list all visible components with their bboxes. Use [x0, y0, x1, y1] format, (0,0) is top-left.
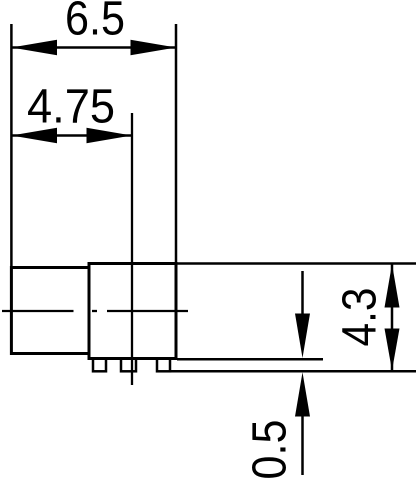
pin 3: [157, 359, 170, 372]
pin 2: [121, 359, 136, 372]
arrowhead 4.75 left: [11, 128, 57, 144]
connector barrel outline: [11, 268, 89, 354]
svg-text:0.5: 0.5: [244, 420, 297, 480]
dimension 0.5 lower arrowhead: [295, 372, 310, 416]
arrowhead 4.3 top: [385, 264, 400, 308]
extension line right (6.5): [175, 24, 178, 263]
arrowhead 6.5 left: [11, 40, 57, 56]
dimension 0.5 upper arrowhead: [295, 314, 310, 359]
arrowhead 4.3 bottom: [385, 329, 400, 371]
extension line body bottom (0.5 top): [177, 358, 323, 361]
seating plane line (0.5 bottom / 4.3 bottom): [170, 370, 416, 373]
svg-text:4.3: 4.3: [334, 288, 387, 347]
extension line left (6.5 / 4.75): [10, 24, 13, 267]
arrowhead 6.5 right: [131, 40, 177, 56]
extension / pin centerline vertical (4.75 right): [131, 113, 133, 385]
horizontal centerline dash 1: [2, 310, 74, 312]
extension line body top (4.3 top): [176, 262, 416, 265]
dimension 0.5 lower arrow shaft: [301, 410, 304, 475]
dimension line 4.75: [11, 134, 132, 137]
svg-text:6.5: 6.5: [65, 0, 125, 46]
horizontal centerline dash 2: [92, 310, 97, 312]
connector body outline: [89, 264, 176, 359]
dimension 0.5 upper arrow shaft: [301, 271, 304, 318]
dimension line 4.3: [391, 264, 394, 371]
arrowhead 4.75 right: [87, 128, 133, 144]
svg-text:4.75: 4.75: [27, 81, 115, 134]
dimension line 6.5: [11, 46, 176, 49]
pin 1: [93, 359, 106, 372]
horizontal centerline dash 3: [107, 310, 188, 312]
